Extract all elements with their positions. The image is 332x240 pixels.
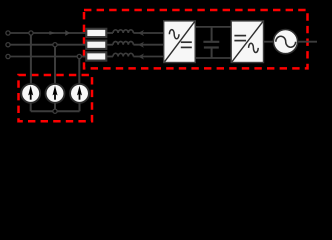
wire phase B horizontal bbox=[10, 44, 86, 46]
capacitor C1 bbox=[203, 27, 219, 58]
node bus junction bbox=[53, 109, 57, 113]
wire phase B drop to I2 bbox=[54, 47, 56, 85]
resistor R1 bbox=[86, 29, 106, 37]
wire bottom bus bbox=[31, 110, 80, 112]
resistor R2 bbox=[86, 41, 106, 49]
wire DC bus negative bbox=[195, 57, 231, 59]
wire I2 to bus bbox=[54, 103, 56, 111]
current source I3 bbox=[70, 84, 89, 103]
wire U2 to G1 bbox=[264, 41, 275, 43]
wire DC bus positive bbox=[195, 26, 231, 28]
current arrow i2 on phase A bbox=[65, 30, 70, 36]
wire L3 to U1 with arrow bbox=[133, 54, 163, 60]
resistor R3 bbox=[86, 52, 106, 60]
wire R2 to L2 bbox=[106, 44, 113, 46]
AC source G1 bbox=[273, 29, 297, 53]
current source I2 bbox=[46, 84, 65, 103]
wire G1 output bbox=[298, 41, 317, 43]
inductor L1 bbox=[113, 30, 133, 33]
current source I1 bbox=[21, 84, 40, 103]
current-source dashed enclosure box bbox=[19, 75, 93, 121]
node junction phase B bbox=[53, 43, 57, 47]
inductor L3 bbox=[113, 53, 133, 56]
current arrow i1 on phase A bbox=[49, 31, 55, 35]
wire R3 to L3 bbox=[106, 56, 113, 58]
wire phase C drop to I3 bbox=[78, 59, 80, 86]
wire phase A horizontal bbox=[10, 32, 86, 34]
terminal phase C bbox=[6, 54, 10, 58]
wire phase A drop to I1 bbox=[30, 35, 32, 85]
wire L1 to U1 with arrow bbox=[133, 30, 163, 36]
node junction phase C bbox=[77, 54, 81, 58]
terminal phase A bbox=[6, 31, 10, 35]
terminal phase B bbox=[6, 43, 10, 47]
wire I3 to bus bbox=[79, 103, 81, 111]
wire R1 to L1 bbox=[106, 32, 113, 34]
DC/AC inverter U2 bbox=[231, 21, 263, 63]
converter dashed enclosure box bbox=[84, 10, 308, 68]
node junction phase A bbox=[29, 31, 33, 35]
AC/DC rectifier U1 bbox=[164, 21, 196, 63]
wire L2 to U1 with arrow bbox=[133, 42, 163, 48]
inductor L2 bbox=[113, 41, 133, 44]
wire phase C horizontal bbox=[10, 56, 86, 58]
wire I1 to bus bbox=[30, 103, 32, 111]
